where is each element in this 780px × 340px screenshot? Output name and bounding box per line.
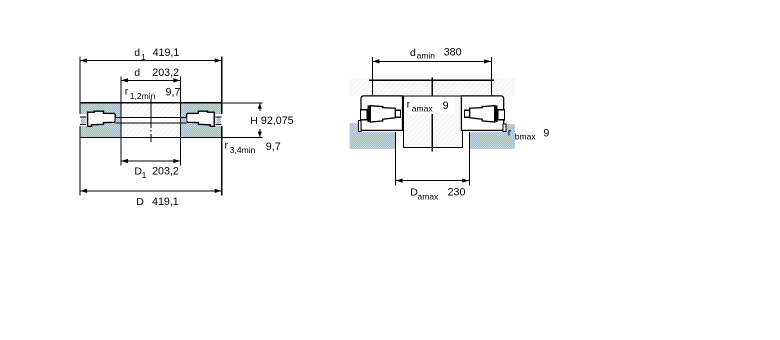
central washer hatch bottom	[122, 123, 180, 137]
svg-text:92,075: 92,075	[261, 115, 294, 127]
washer separation band lines	[115, 117, 186, 119]
svg-text:r: r	[125, 86, 129, 98]
roller left (white, tapered)	[88, 111, 116, 126]
blue tab inner-right	[182, 118, 187, 122]
svg-text:9: 9	[543, 128, 549, 140]
svg-text:amin: amin	[417, 51, 436, 61]
dimension d_amin 380	[372, 60, 491, 62]
roller right (right view)	[465, 105, 505, 122]
shaft washer left	[359, 96, 403, 132]
blue tab inner-left	[115, 118, 120, 122]
svg-text:230: 230	[448, 186, 466, 198]
dimension d 203,2	[121, 79, 180, 81]
dimension D_amax 230	[396, 180, 470, 182]
dimension D 419,1	[80, 190, 222, 192]
central washer hatch top	[122, 103, 180, 117]
extension lines d_amin	[371, 57, 373, 96]
shaft shoulder hatch	[350, 78, 515, 96]
center axis line	[150, 99, 152, 142]
center axis line (right)	[431, 78, 433, 96]
svg-text:419,1: 419,1	[152, 196, 179, 208]
svg-text:9,7: 9,7	[266, 141, 281, 153]
svg-text:H: H	[250, 115, 258, 127]
svg-text:amax: amax	[412, 104, 434, 114]
dimension d1 419,1	[80, 60, 222, 62]
dimension H 92,075	[222, 103, 262, 138]
label background r_amax	[404, 97, 455, 114]
roller right (white, tapered)	[187, 111, 215, 126]
extension line right inner	[179, 77, 181, 166]
dimension D1 203,2	[121, 160, 180, 162]
svg-text:1: 1	[141, 52, 146, 62]
svg-text:D: D	[136, 196, 144, 208]
central shaft block	[403, 96, 462, 148]
svg-text:d: d	[410, 47, 416, 59]
extension line left inner	[120, 77, 122, 166]
washer housing left (blue)	[81, 103, 121, 136]
svg-text:r: r	[407, 99, 411, 111]
svg-text:r: r	[508, 126, 512, 138]
svg-text:r: r	[225, 139, 229, 151]
svg-text:3,4min: 3,4min	[230, 145, 256, 155]
extension line right outer	[221, 57, 223, 196]
shaft shoulder line	[369, 79, 494, 81]
svg-text:203,2: 203,2	[152, 67, 179, 79]
svg-text:1: 1	[142, 170, 147, 180]
svg-text:d: d	[134, 47, 140, 59]
housing block left (blue)	[350, 123, 396, 149]
svg-text:amax: amax	[418, 191, 440, 201]
svg-text:203,2: 203,2	[152, 165, 179, 177]
svg-text:419,1: 419,1	[153, 47, 180, 59]
svg-text:bmax: bmax	[515, 132, 537, 142]
outer lip gap left	[79, 114, 86, 126]
svg-text:380: 380	[444, 47, 462, 59]
extension lines D_amax	[395, 132, 397, 185]
svg-text:1,2min: 1,2min	[130, 91, 156, 101]
svg-text:d: d	[134, 67, 140, 79]
outer lip gap right	[215, 114, 222, 126]
svg-text:9: 9	[443, 100, 449, 112]
bearing outline	[80, 103, 223, 138]
shaft washer right	[461, 96, 506, 131]
housing block right (blue)	[469, 124, 515, 149]
extension line left outer	[79, 57, 81, 196]
roller left (right view)	[361, 105, 401, 122]
svg-text:9,7: 9,7	[166, 87, 181, 99]
washer housing right (blue)	[181, 103, 221, 136]
